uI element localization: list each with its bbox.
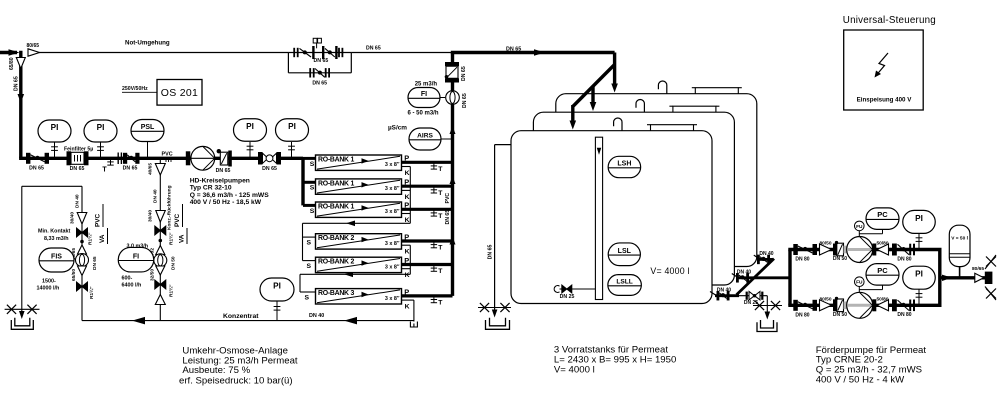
HP pump flange — [186, 151, 191, 165]
wire: feed main horizontal to RO manifold — [19, 157, 303, 160]
flange union on feed — [117, 153, 119, 165]
svg-text:S: S — [305, 294, 310, 301]
svg-text:Not-Umgehung: Not-Umgehung — [125, 40, 170, 47]
svg-text:3 x 8″: 3 x 8″ — [385, 241, 400, 247]
wire: permeate P line bank 1 (thick) — [402, 161, 453, 164]
valve DN 80 upper train discharge — [892, 244, 897, 256]
svg-text:DN 80: DN 80 — [795, 312, 809, 318]
svg-text:14000 l/h: 14000 l/h — [37, 286, 60, 292]
svg-text:3 x 8″: 3 x 8″ — [385, 162, 400, 168]
svg-text:DN 65: DN 65 — [216, 168, 231, 174]
svg-text:DN 65: DN 65 — [14, 76, 20, 91]
tank drain hook — [554, 286, 559, 293]
wire: permeate P line bank 6 (thick) — [402, 294, 453, 297]
svg-text:K: K — [405, 272, 410, 279]
fine filter Feinfilter 5u DN65 — [67, 151, 72, 165]
vessel tank 2 (middle) Vorratstank — [533, 112, 734, 285]
svg-text:erf. Speisedruck: 10 bar(ü): erf. Speisedruck: 10 bar(ü) — [179, 375, 293, 386]
svg-text:3 x 8″: 3 x 8″ — [385, 209, 400, 215]
wire: tank feed drop to tank 3 — [613, 53, 616, 87]
arrow on concentrate line — [344, 317, 357, 325]
svg-text:DN 80: DN 80 — [795, 257, 809, 263]
svg-text:50/80: 50/80 — [876, 297, 888, 303]
svg-text:6400 l/h: 6400 l/h — [122, 283, 142, 289]
valve R1 1/4 discharge upper — [77, 228, 83, 237]
svg-text:DN 65: DN 65 — [366, 46, 381, 52]
svg-text:1500-: 1500- — [42, 279, 56, 285]
svg-text:P: P — [404, 287, 409, 296]
svg-text:RO-BANK 3: RO-BANK 3 — [318, 290, 354, 297]
air gap at tank drain — [753, 305, 782, 307]
svg-text:DN 50: DN 50 — [171, 256, 177, 270]
arrow on feed drop — [18, 94, 25, 103]
svg-text:600-: 600- — [122, 276, 133, 282]
wire: tank feed diagonal — [573, 65, 615, 107]
svg-text:30/40: 30/40 — [70, 212, 76, 224]
svg-text:DN 65: DN 65 — [462, 93, 468, 108]
svg-text:S: S — [307, 263, 312, 270]
svg-text:65/50: 65/50 — [71, 269, 77, 281]
svg-text:RO-BANK 2: RO-BANK 2 — [318, 259, 354, 266]
svg-text:DN 80: DN 80 — [897, 312, 911, 318]
membrane bank RO-BANK 1 (3) — [316, 202, 402, 217]
svg-text:DN 65: DN 65 — [70, 166, 85, 172]
sampling point T bank 3 — [433, 209, 435, 216]
svg-text:T: T — [102, 167, 107, 174]
reducer 32/50 below flow meter — [156, 266, 165, 275]
reducer at recirculation bottom — [155, 295, 165, 305]
drain funnel (concentrate) — [11, 320, 33, 329]
valve R1 1/4 recirculation lower — [155, 280, 161, 289]
wire: raw water feed entry (thick) — [0, 51, 17, 54]
svg-text:RO-BANK 2: RO-BANK 2 — [318, 235, 354, 242]
pressure controller PC lower train — [866, 264, 899, 286]
sampling point T on feed — [110, 158, 112, 165]
wire: feed drop vertical DN65 — [19, 51, 22, 159]
flange upper train after reducer — [889, 248, 891, 251]
outlet blind flange — [985, 272, 993, 284]
level switch LSLL — [608, 275, 642, 296]
svg-text:PI: PI — [246, 122, 254, 131]
wire: tank2 outlet stub — [732, 274, 739, 278]
reducer 30/40 discharge — [77, 213, 87, 225]
svg-text:DN 40: DN 40 — [153, 189, 159, 203]
svg-text:Konz.-Rückführung: Konz.-Rückführung — [167, 185, 173, 230]
wire: stage1 K collector — [409, 167, 411, 224]
svg-text:HD-Kreiselpumpen: HD-Kreiselpumpen — [190, 178, 250, 185]
wire: RO feed manifold (thick) — [301, 158, 304, 205]
flow meter (discharge) — [76, 254, 89, 267]
svg-text:Q = 36,6 m3/h - 125 mWS: Q = 36,6 m3/h - 125 mWS — [190, 192, 270, 199]
flange upper train suction — [833, 244, 837, 256]
valve R1 1/4 discharge lower — [77, 282, 83, 291]
vent cane on tank 3 (back) — [658, 81, 666, 94]
frequency converter FU upper train — [855, 221, 865, 231]
wire: stage3 K drop to concentrate — [402, 299, 414, 301]
valve DN 80 lower train discharge — [892, 299, 897, 311]
sampling point T bank 1 — [433, 162, 435, 169]
svg-text:DN 40: DN 40 — [309, 313, 324, 319]
reducer 80/65 at bypass start — [28, 49, 40, 56]
svg-text:50/80: 50/80 — [876, 241, 888, 247]
manhole fitting on tank 2 (middle) — [673, 106, 716, 112]
air gap at overflow drain — [478, 307, 511, 309]
arrow stage1 crossover — [346, 221, 355, 227]
valve DN 65 bypass B — [322, 46, 324, 59]
valve DN 40 tank3 outlet — [757, 255, 760, 265]
check valve DN 50 upper train — [837, 243, 844, 256]
svg-text:DN 65: DN 65 — [123, 166, 138, 172]
svg-text:PI: PI — [288, 122, 296, 131]
svg-text:PI: PI — [97, 123, 105, 132]
svg-text:P: P — [404, 256, 409, 265]
svg-text:DN 25: DN 25 — [560, 294, 575, 300]
svg-text:P: P — [404, 178, 409, 187]
svg-text:R1¼″: R1¼″ — [88, 286, 95, 299]
svg-text:3 x 8″: 3 x 8″ — [385, 264, 400, 270]
arrow stage2 crossover — [344, 272, 353, 278]
svg-text:80/65: 80/65 — [27, 43, 40, 49]
check valve DN 50 lower train — [837, 299, 844, 312]
reducer 65/50 below discharge meter — [78, 266, 87, 276]
manhole fitting on tank 1 (front) — [651, 125, 694, 131]
reducer 50/32 above flow meter — [156, 246, 165, 255]
svg-text:PVC: PVC — [174, 213, 181, 227]
reducer 50/80 lower train — [877, 300, 889, 311]
svg-text:PI: PI — [273, 282, 281, 291]
arrow on permeate top line — [534, 49, 545, 56]
svg-text:PI: PI — [51, 123, 59, 132]
reducer 80/50 lower train — [820, 300, 832, 311]
wire: stage2 S stubs — [303, 236, 316, 238]
future connection marks — [986, 257, 996, 267]
control box OS 201 — [157, 80, 202, 106]
control valve DN 65 (diaphragm) — [258, 152, 263, 165]
power supply lightning symbol — [877, 53, 889, 75]
wire: permeate riser (thick) — [451, 53, 454, 296]
svg-text:DN 40: DN 40 — [717, 287, 731, 293]
svg-text:V= 4000 l: V= 4000 l — [650, 266, 689, 276]
svg-text:65/80: 65/80 — [9, 57, 15, 70]
vessel tank 3 (back) Vorratstank — [556, 94, 757, 267]
arrow into tank 2 — [590, 102, 597, 111]
valve DN 80 upper train suction — [793, 244, 798, 255]
svg-text:DN 65: DN 65 — [312, 81, 327, 87]
wire: stage1->stage2 crossover — [303, 222, 411, 224]
wire: tank overflow line DN65 — [495, 144, 512, 146]
level switch LSL — [608, 243, 640, 266]
svg-text:V= 4000 l: V= 4000 l — [554, 364, 595, 375]
arrow into overflow drain — [492, 310, 498, 318]
drain funnel (overflow) — [486, 320, 510, 329]
svg-text:DN 40: DN 40 — [759, 251, 773, 257]
actuator on bypass valve — [316, 43, 318, 48]
svg-text:8,33 m3/h: 8,33 m3/h — [44, 236, 69, 242]
expansion vessel V=50l — [949, 225, 970, 266]
svg-text:DN 65: DN 65 — [445, 210, 451, 225]
svg-text:Typ CR 32-10: Typ CR 32-10 — [190, 185, 232, 192]
wire: bypass thin line left part — [39, 52, 288, 54]
wire: bypass thin line right part — [288, 52, 351, 54]
svg-text:6 - 50 m3/h: 6 - 50 m3/h — [408, 111, 439, 117]
svg-text:DN 65: DN 65 — [506, 46, 521, 52]
wire: tank1 outlet stub — [710, 292, 717, 296]
flow indicator FI (recirculation) — [153, 259, 155, 261]
svg-text:R1¼″: R1¼″ — [168, 284, 175, 297]
svg-text:250V/50Hz: 250V/50Hz — [122, 86, 148, 92]
pump CRNE lower train — [844, 302, 848, 310]
svg-text:FU: FU — [856, 280, 863, 286]
wire: bypass valve-group loop — [287, 53, 289, 73]
wire: tank3 outlet line DN40 — [759, 258, 774, 261]
flange pair bypass outlet — [338, 48, 340, 57]
pressure gauge PI (concentrate) — [276, 301, 278, 321]
valve DN 40 tank2 outlet — [736, 273, 739, 283]
wire: outlet line (thick) — [940, 276, 985, 279]
check valve DN 65 after pump — [217, 149, 221, 153]
svg-text:Einspeisung 400 V: Einspeisung 400 V — [857, 97, 913, 104]
svg-text:PI: PI — [915, 214, 923, 223]
svg-text:V = 50 l: V = 50 l — [951, 236, 968, 242]
reducer 80/50 upper train — [820, 244, 832, 255]
svg-text:Universal-Steuerung: Universal-Steuerung — [843, 15, 936, 26]
svg-text:LSH: LSH — [617, 161, 631, 168]
membrane bank RO-BANK 3 (6) — [316, 289, 402, 304]
svg-text:R1¼″: R1¼″ — [87, 232, 94, 245]
svg-text:PVC: PVC — [445, 193, 451, 204]
arrow on outlet line — [942, 275, 952, 281]
pressure gauge PI (after pump) — [249, 142, 251, 158]
svg-text:RO-BANK 1: RO-BANK 1 — [318, 204, 354, 211]
svg-text:32/50: 32/50 — [150, 269, 156, 281]
svg-text:DN 65: DN 65 — [461, 66, 467, 81]
svg-text:DN 65: DN 65 — [29, 166, 44, 172]
flange upper train discharge — [872, 244, 876, 256]
pump CRNE upper train — [844, 246, 848, 254]
wire: stage2 K collector — [409, 245, 411, 274]
sampling point T bank 4 — [433, 241, 435, 248]
wire: suction header (thick) — [788, 250, 791, 306]
wire: concentrate line DN40 — [82, 320, 414, 322]
svg-text:3 x 8″: 3 x 8″ — [385, 296, 400, 302]
sampling point T bank 6 — [433, 296, 435, 303]
svg-text:K: K — [405, 170, 410, 177]
svg-text:DN 40: DN 40 — [75, 194, 81, 208]
svg-text:PSL: PSL — [141, 124, 155, 131]
level standpipe in tank 1 — [595, 137, 602, 299]
svg-text:PC: PC — [877, 210, 888, 219]
svg-text:µS/cm: µS/cm — [388, 125, 407, 132]
wire: lower pump train (thick) — [788, 304, 941, 307]
svg-text:AIRS: AIRS — [417, 133, 433, 140]
reducer 65/80 on feed drop — [16, 58, 25, 69]
wire: outlet collector diagonal — [737, 259, 775, 295]
control cabinet box — [844, 30, 924, 110]
svg-text:P: P — [404, 154, 409, 163]
pressure controller PC upper train — [866, 208, 899, 230]
arrow into tank drain funnel — [765, 312, 771, 320]
membrane bank RO-BANK 1 (2) — [316, 179, 402, 194]
membrane bank RO-BANK 2 (5) — [316, 257, 402, 272]
wire: tank2 outlet line DN40 to suction header — [737, 276, 791, 279]
valve DN 25 on tank drain — [562, 285, 567, 293]
reducer 50/65 above discharge meter — [78, 245, 87, 254]
reducer 30/40 recirculation — [156, 211, 166, 223]
valve DN 65 before pump — [123, 153, 127, 164]
vent cane on tank 1 (front) — [614, 118, 622, 131]
valve DN 25 drain branch — [746, 292, 748, 300]
svg-text:DN 50: DN 50 — [833, 312, 847, 318]
svg-text:FI: FI — [421, 91, 427, 98]
air gap at concentrate drain — [5, 308, 40, 310]
svg-text:DN 65: DN 65 — [262, 166, 277, 172]
wire: upper pump train (thick) — [788, 248, 941, 251]
svg-text:Feinfilter 5µ: Feinfilter 5µ — [64, 146, 93, 152]
wire: stage1 S stubs (thick) — [303, 157, 316, 160]
pressure gauge PI (feed 2) — [100, 143, 102, 159]
svg-text:S: S — [307, 240, 312, 247]
svg-text:Konzentrat: Konzentrat — [223, 313, 259, 320]
valve R1 1/4 recirculation upper — [155, 226, 161, 235]
flange lower train suction — [833, 299, 837, 311]
svg-text:P: P — [404, 201, 409, 210]
valve DN 80 lower train suction — [793, 300, 798, 311]
flow meter (recirculation) — [154, 254, 167, 267]
wire: stage3 S stub — [300, 291, 316, 293]
membrane bank RO-BANK 1 (1) — [316, 155, 402, 170]
arrow into tank 3 — [611, 84, 618, 93]
wire: permeate P line bank 5 (thick) — [402, 263, 453, 266]
check valve DN 65 on riser — [445, 62, 459, 66]
svg-text:RO-BANK 1: RO-BANK 1 — [318, 180, 354, 187]
pressure gauge PI (feed 1) — [54, 143, 56, 159]
drain funnel (tanks) — [757, 322, 777, 331]
svg-text:80/65: 80/65 — [972, 266, 984, 272]
svg-text:VA: VA — [99, 234, 106, 243]
svg-text:DN 65: DN 65 — [488, 245, 494, 260]
wire: tank1 outlet line DN40 — [715, 294, 739, 297]
valve DN 40 tank1 outlet — [717, 291, 720, 301]
arrow on concentrate line (left) — [132, 317, 145, 325]
arrow into tank 1 — [570, 121, 577, 130]
vessel tank 1 (front) Vorratstank — [511, 131, 712, 304]
svg-text:DN 65: DN 65 — [92, 256, 98, 270]
svg-text:K: K — [405, 304, 410, 311]
wire: permeate P line bank 2 (thick) — [402, 185, 453, 188]
wire: drop to tank drain funnel — [766, 296, 768, 316]
sampling point T bank 2 — [433, 186, 435, 193]
wire: branch drop to tank 2 — [591, 86, 594, 105]
valve DN 65 bypass lower branch — [309, 68, 311, 77]
wire: Konz.-Rueckfuehrung branch — [159, 158, 161, 320]
wire: stage2->stage3 crossover — [300, 273, 410, 275]
svg-text:DN 65: DN 65 — [314, 58, 329, 64]
svg-text:VA: VA — [179, 234, 186, 243]
pressure switch PSL — [147, 142, 149, 158]
arrow feed entry — [9, 49, 20, 56]
svg-text:PVC: PVC — [162, 152, 173, 158]
flow switch FIS — [39, 248, 74, 272]
svg-text:400 V / 50 Hz - 18,5 kW: 400 V / 50 Hz - 18,5 kW — [190, 199, 262, 206]
flange lower train after reducer — [889, 304, 891, 307]
svg-text:OS 201: OS 201 — [161, 87, 198, 99]
flange lower train discharge — [872, 299, 876, 311]
arrow into concentrate drain — [19, 311, 25, 319]
wire: vessel stem — [959, 267, 961, 278]
level switch LSH — [608, 156, 641, 177]
pressure gauge PI lower train — [918, 289, 920, 305]
svg-text:PVC: PVC — [95, 213, 102, 227]
manhole fitting on tank 3 (back) — [695, 88, 738, 94]
small funnel at stage3 K drop — [410, 322, 417, 328]
valve DN 65 feed isolation — [26, 153, 30, 164]
pressure gauge PI upper train — [918, 234, 920, 250]
svg-text:400 V / 50 Hz - 4 kW: 400 V / 50 Hz - 4 kW — [816, 374, 905, 385]
wire: concentrate discharge riser — [81, 186, 83, 320]
svg-text:RO-BANK 1: RO-BANK 1 — [318, 157, 354, 164]
membrane bank RO-BANK 2 (4) — [316, 234, 402, 249]
svg-text:R1¼″: R1¼″ — [168, 232, 175, 245]
svg-text:80/50: 80/50 — [819, 297, 831, 303]
svg-text:S: S — [310, 185, 315, 192]
svg-text:80/50: 80/50 — [819, 241, 831, 247]
frequency converter FU lower train — [855, 277, 865, 287]
svg-text:DN 50: DN 50 — [833, 256, 847, 262]
svg-text:LSLL: LSLL — [616, 279, 632, 286]
svg-text:25 m3/h: 25 m3/h — [415, 82, 438, 88]
svg-text:K: K — [405, 249, 410, 256]
sampling point T bank 5 — [433, 265, 435, 272]
valve DN 65 bypass A (with actuator) — [300, 48, 312, 57]
arrow in standpipe — [597, 148, 602, 155]
svg-text:LSL: LSL — [618, 248, 632, 255]
reducer 80/65 outlet — [975, 273, 984, 282]
wire: discharge header (thick) — [938, 250, 941, 306]
reducer 50/80 upper train — [877, 244, 889, 255]
wire: branch drop to tank 1 — [571, 105, 574, 124]
svg-text:DN 40: DN 40 — [737, 269, 751, 275]
svg-text:30/40: 30/40 — [148, 210, 154, 222]
svg-text:FIS: FIS — [51, 254, 62, 261]
flow meter on riser — [446, 91, 460, 105]
HD-Kreiselpumpe (HP pump) — [191, 146, 215, 170]
wire: permeate top line to tanks DN65 (thick) — [451, 51, 615, 54]
svg-text:FI: FI — [133, 253, 139, 260]
svg-text:3 x 8″: 3 x 8″ — [385, 186, 400, 192]
svg-text:PI: PI — [915, 270, 923, 279]
flange pair bypass inlet — [293, 48, 295, 57]
svg-text:DN 80: DN 80 — [897, 256, 911, 262]
pressure gauge PI (RO inlet) — [291, 142, 293, 158]
svg-text:S: S — [310, 208, 315, 215]
svg-text:Min. Kontakt: Min. Kontakt — [38, 229, 71, 235]
wire: tank3 outlet stub — [754, 255, 761, 259]
svg-text:P: P — [404, 232, 409, 241]
svg-text:S: S — [310, 161, 315, 168]
reducer 40/65 on recirculation — [155, 164, 165, 176]
svg-text:FU: FU — [856, 224, 863, 230]
arrows on permeate riser — [450, 126, 456, 134]
wire: permeate P line bank 3 (thick) — [402, 208, 453, 211]
wire: tank drain line DN25 — [560, 288, 596, 290]
svg-text:40/65: 40/65 — [148, 163, 154, 175]
wire: concentrate top run to drain — [22, 185, 82, 187]
vent cane on tank 2 (middle) — [636, 99, 644, 112]
svg-text:K: K — [405, 217, 410, 224]
svg-text:PC: PC — [877, 266, 888, 275]
wire: permeate P line bank 4 (thick) — [402, 239, 453, 242]
wire: tank drain branch — [739, 295, 767, 297]
